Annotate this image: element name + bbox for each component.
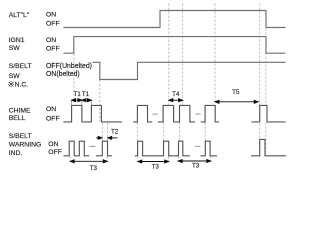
svg-text:ALT"L": ALT"L" [9,12,30,19]
svg-text:CHIME: CHIME [9,108,31,115]
svg-text:OFF(Unbelted): OFF(Unbelted) [46,63,92,70]
svg-text:S/BELT: S/BELT [9,133,32,140]
svg-text:OFF: OFF [46,45,60,52]
svg-text:T3: T3 [90,165,98,172]
svg-text:ON: ON [46,12,56,19]
svg-text:WARNING: WARNING [9,142,42,149]
svg-text:ON: ON [48,141,58,148]
svg-text:ON: ON [46,106,56,113]
svg-text:T2: T2 [111,129,119,136]
svg-text:T3: T3 [192,162,200,169]
svg-text:SW: SW [9,45,21,52]
svg-text:T3: T3 [152,163,160,170]
svg-text:ON: ON [46,37,56,44]
svg-text:T1: T1 [74,91,82,98]
svg-text:SW: SW [9,73,21,80]
svg-text:N.C.: N.C. [15,81,29,88]
svg-text:IGN1: IGN1 [9,37,25,44]
svg-text:OFF: OFF [46,115,60,122]
svg-text:IND.: IND. [9,150,23,157]
svg-text:OFF: OFF [46,20,60,27]
svg-text:BELL: BELL [9,115,26,122]
svg-text:ON(belted): ON(belted) [46,71,80,78]
svg-text:T1: T1 [82,91,90,98]
svg-text:T4: T4 [172,91,180,98]
svg-text:OFF: OFF [48,149,62,156]
svg-text:T5: T5 [232,89,240,96]
svg-text:S/BELT: S/BELT [9,63,32,70]
